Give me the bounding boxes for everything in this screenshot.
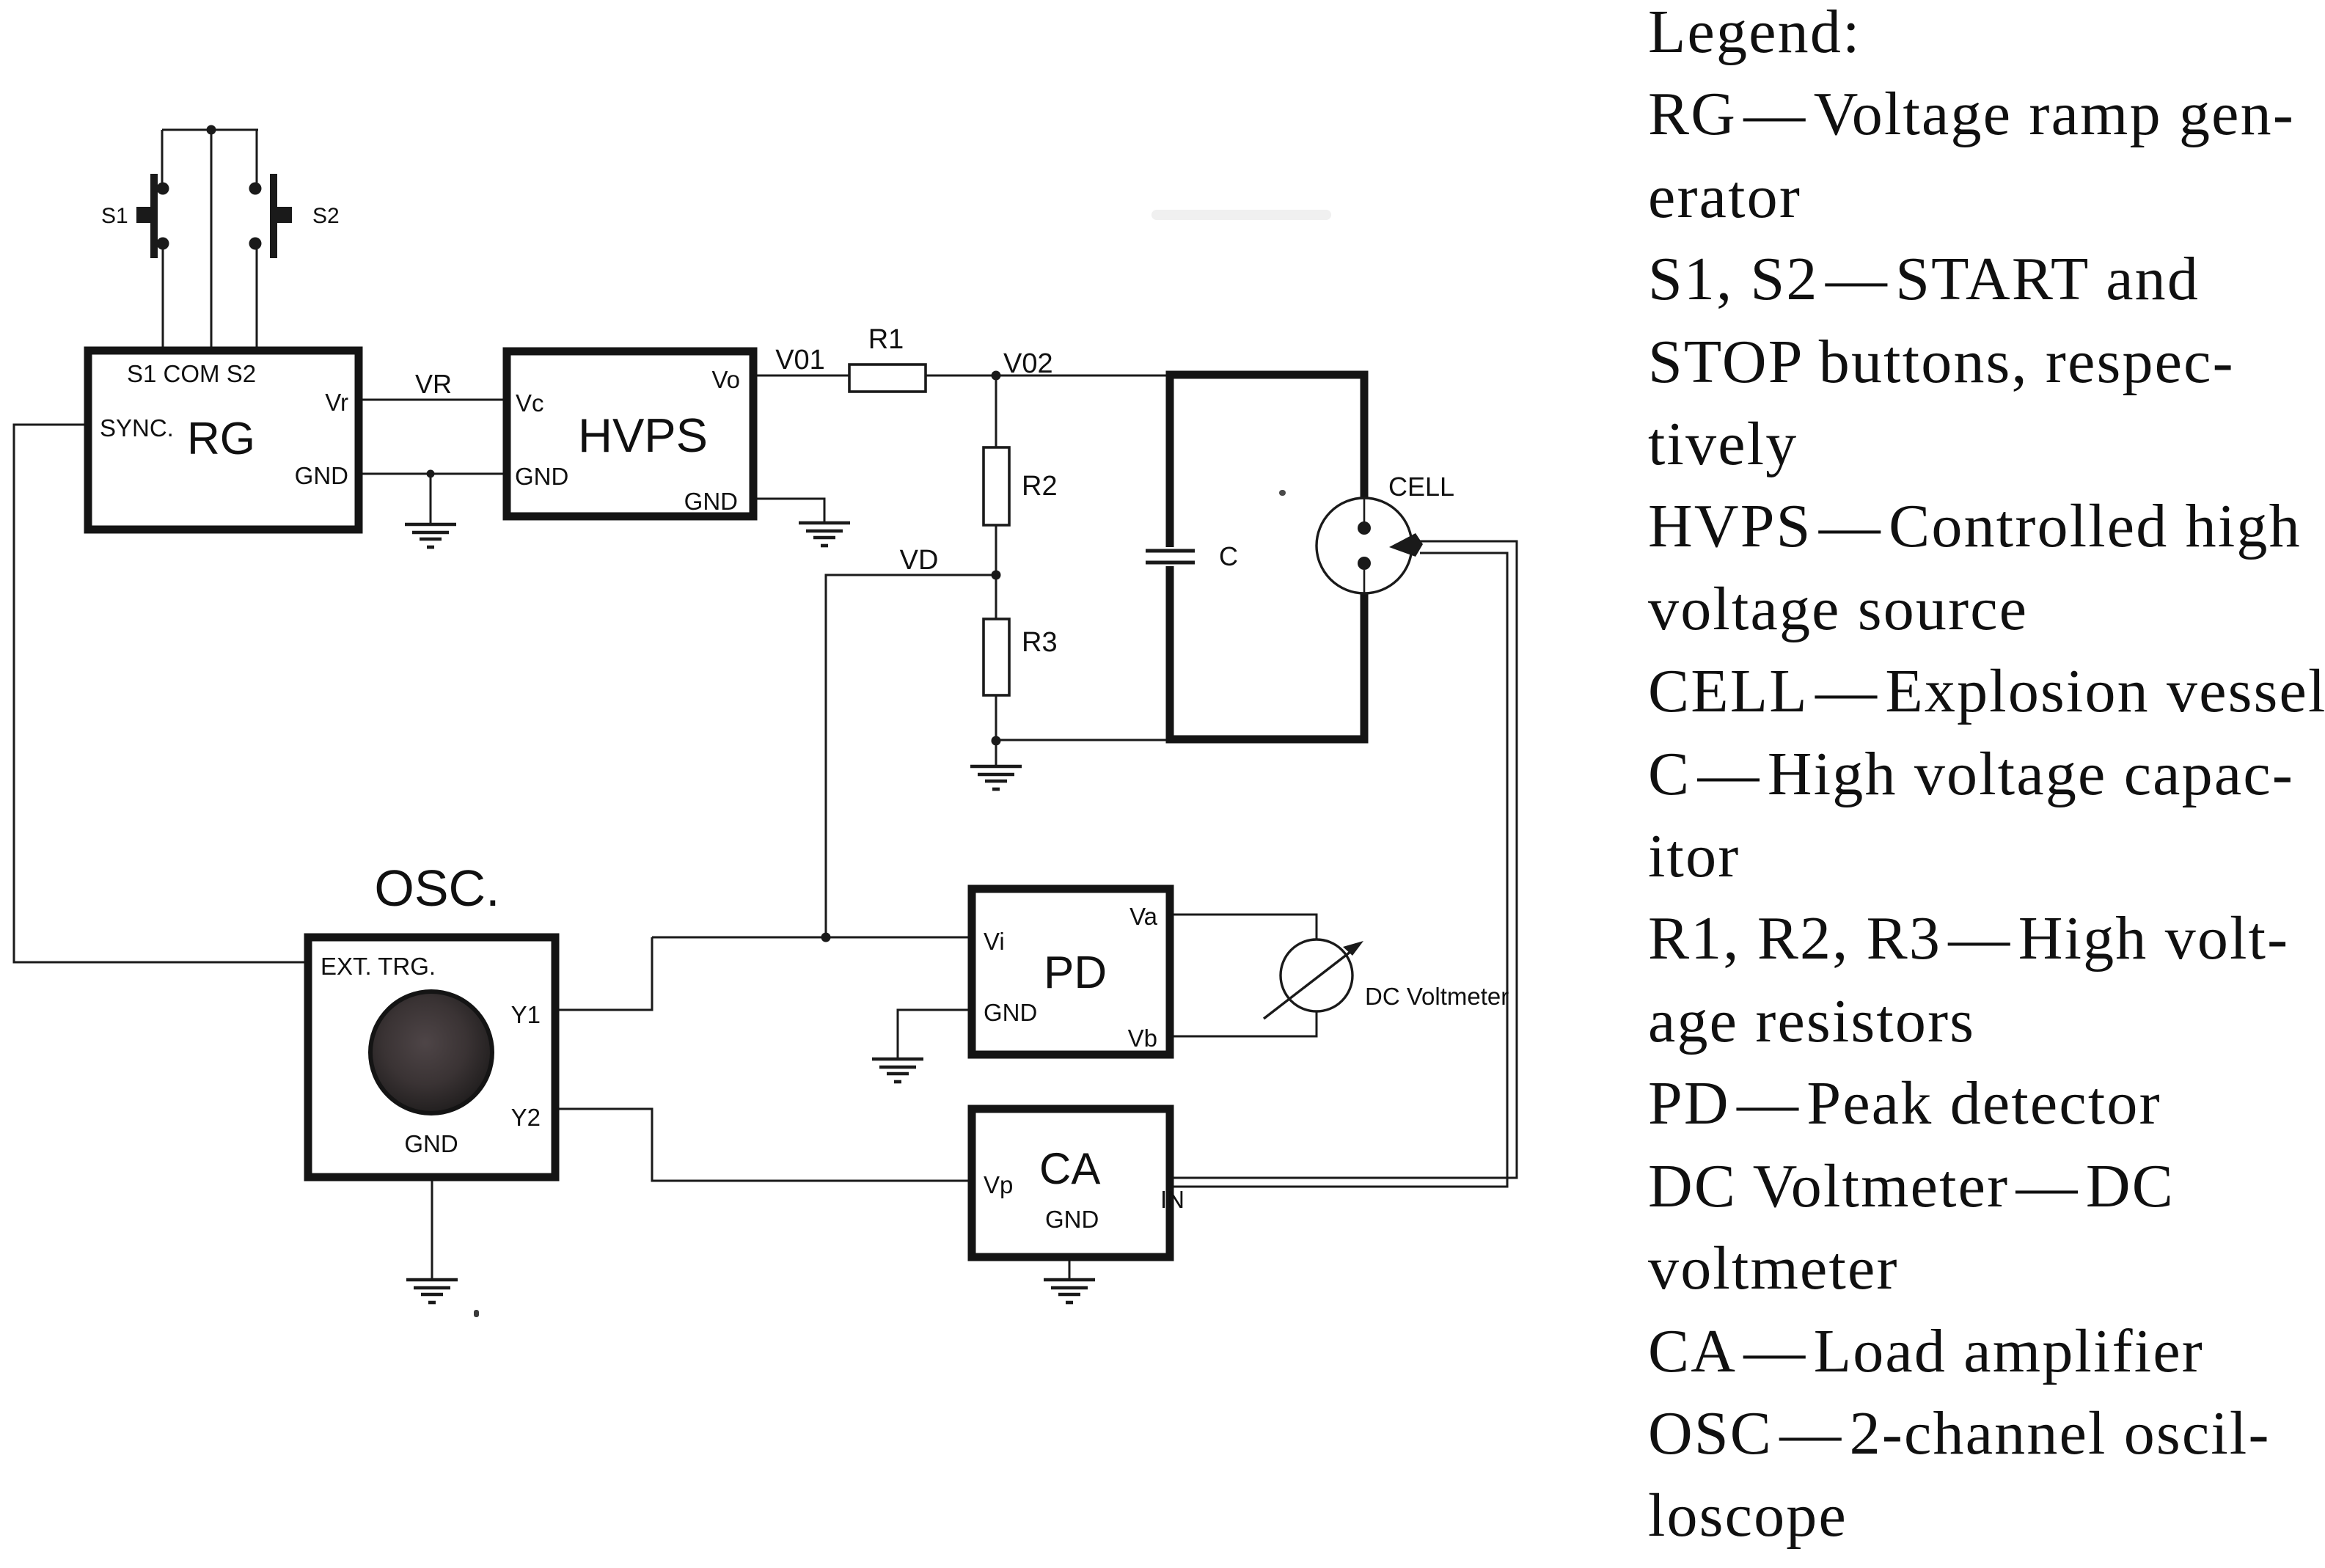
wire: Y2 from OSC to CA Vp [555, 1109, 972, 1181]
DC voltmeter circle [1281, 939, 1352, 1011]
ground symbol divider bottom [970, 766, 1022, 789]
svg-text:OSC.: OSC. [374, 860, 499, 917]
node switch COM junction dot [207, 125, 216, 135]
svg-text:GND: GND [515, 463, 568, 490]
svg-text:Va: Va [1129, 903, 1158, 930]
svg-text:Vo: Vo [711, 366, 740, 393]
legend text [1648, 0, 2325, 1558]
svg-text:IN: IN [1160, 1186, 1185, 1213]
wire: R3 to bottom node [995, 695, 997, 741]
node V02 junction dot [992, 371, 1001, 381]
CELL top electrode [1363, 498, 1366, 522]
wire: R2 to R3 [995, 525, 997, 619]
wire: V02 down to R2 [995, 375, 997, 447]
block CA [972, 1109, 1170, 1257]
svg-text:CA: CA [1039, 1144, 1100, 1193]
wire: R1 to cell box with V02 node [926, 375, 1170, 377]
svg-text:GND: GND [404, 1130, 458, 1157]
svg-text:GND: GND [1045, 1206, 1099, 1233]
wire: GND RG to HVPS [359, 473, 507, 475]
CELL explosion vessel circle [1317, 498, 1412, 593]
ground symbol OSC [406, 1280, 458, 1303]
wire: coax outer line CELL to CA [1174, 541, 1517, 1178]
wire: Vb to voltmeter [1170, 1011, 1317, 1036]
svg-text:Vp: Vp [984, 1171, 1013, 1198]
block HVPS [507, 351, 753, 516]
svg-text:GND: GND [984, 999, 1037, 1026]
ground symbol CA [1044, 1280, 1095, 1303]
wire: Vi horizontal into PD [652, 937, 972, 939]
faint scan smudge [1151, 210, 1331, 220]
wire: S1 bottom to RG [162, 249, 164, 351]
svg-text:V01: V01 [775, 345, 825, 375]
OSC CRT screen [370, 992, 492, 1113]
wire: S1 top drop [161, 130, 164, 183]
DC voltmeter arrow [1264, 947, 1357, 1019]
svg-text:Vi: Vi [984, 928, 1005, 955]
CELL bottom electrode [1363, 570, 1366, 593]
node VD junction dot [992, 571, 1001, 580]
wire: ground stem RG/HVPS [430, 474, 432, 524]
block OSC [308, 937, 555, 1177]
resistor R2 [984, 447, 1009, 525]
svg-text:Vc: Vc [516, 389, 544, 417]
svg-text:VD: VD [900, 545, 939, 576]
ground symbol PD [872, 1059, 923, 1082]
capacitor C plates [1146, 551, 1195, 563]
svg-text:R1: R1 [868, 324, 904, 355]
svg-text:S1: S1 [101, 204, 128, 228]
capacitor C gap mask [1163, 547, 1176, 566]
wire: switch common harness top [162, 129, 258, 131]
ground symbol HVPS [799, 523, 850, 546]
CELL side electrode wedge [1389, 533, 1423, 557]
svg-text:Vb: Vb [1128, 1025, 1157, 1052]
cell / capacitor loop thick box [1170, 375, 1364, 739]
svg-text:RG: RG [187, 414, 255, 464]
block PD [972, 889, 1170, 1055]
ground symbol RG/HVPS [405, 524, 456, 547]
resistor R3 [984, 619, 1009, 695]
wire: OSC ground stem [431, 1177, 433, 1279]
wire: PD GND stub [898, 1010, 972, 1058]
block RG [88, 351, 359, 530]
wire: Vo to R1 [753, 375, 849, 377]
switch S2 [249, 174, 293, 258]
node bottom divider junction dot [992, 736, 1001, 746]
wire: S2 bottom to RG [256, 249, 258, 351]
svg-text:DC Voltmeter: DC Voltmeter [1365, 983, 1509, 1010]
wire: Va to voltmeter [1170, 915, 1317, 939]
svg-text:EXT. TRG.: EXT. TRG. [321, 953, 436, 980]
svg-text:R2: R2 [1022, 471, 1058, 502]
wire: COM vertical [210, 130, 213, 351]
wire: Y1 from OSC [555, 937, 652, 1010]
wire: bottom node to cell box [996, 739, 1170, 741]
svg-text:V02: V02 [1003, 348, 1053, 379]
wire: S2 top drop [256, 130, 258, 183]
wire: SYNC from RG to OSC EXT TRG [14, 425, 308, 962]
wire: CA ground stem [1069, 1257, 1071, 1279]
wire: HVPS right GND [753, 499, 824, 522]
svg-text:R3: R3 [1022, 627, 1058, 658]
wire: coax inner line CELL to CA [1174, 553, 1507, 1187]
wire: ground stem below bottom node [995, 741, 997, 765]
svg-text:C: C [1219, 541, 1238, 571]
svg-text:Vr: Vr [325, 389, 348, 416]
resistor R1 [849, 364, 926, 392]
switch S1 [136, 174, 169, 258]
svg-text:HVPS: HVPS [578, 409, 708, 462]
svg-text:Y1: Y1 [511, 1001, 541, 1028]
svg-text:S1 COM S2: S1 COM S2 [127, 360, 256, 387]
svg-text:VR: VR [415, 369, 452, 399]
speck near CELL [1279, 490, 1286, 496]
svg-text:Y2: Y2 [511, 1104, 541, 1131]
svg-text:SYNC.: SYNC. [100, 414, 174, 442]
svg-text:CELL: CELL [1388, 472, 1454, 502]
svg-text:GND: GND [295, 462, 348, 489]
svg-text:GND: GND [684, 488, 738, 515]
svg-text:PD: PD [1044, 948, 1107, 998]
speck below OSC ground [474, 1310, 479, 1317]
node Vi junction dot [821, 933, 831, 942]
node RG GND junction dot [427, 470, 435, 478]
wire: VR (RG Vr to HVPS Vc) [359, 399, 507, 401]
svg-text:S2: S2 [312, 204, 340, 228]
wire: VD from divider to PD Vi [826, 575, 996, 937]
